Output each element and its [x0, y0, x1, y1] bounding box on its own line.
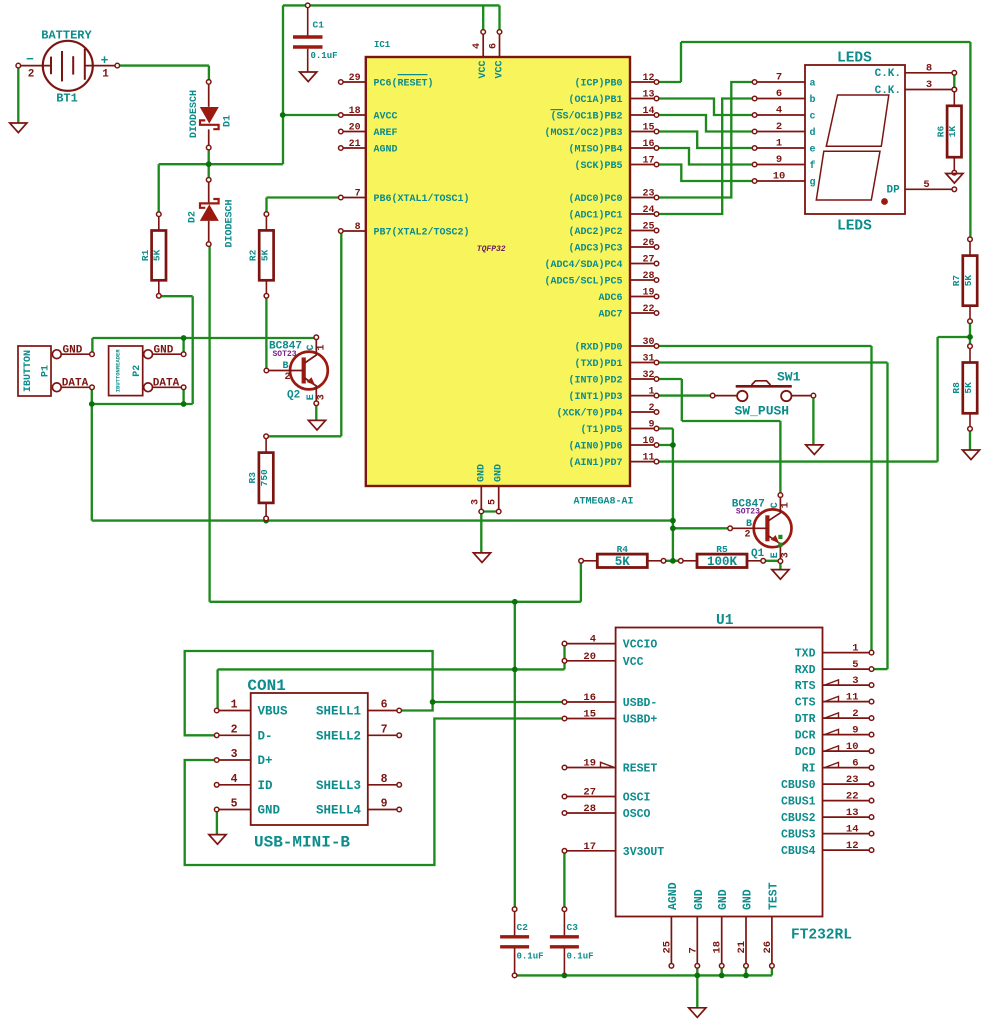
svg-text:14: 14 [846, 824, 859, 836]
svg-text:5K: 5K [259, 249, 270, 261]
svg-text:25: 25 [642, 222, 654, 233]
svg-text:1: 1 [776, 138, 782, 150]
svg-text:RI: RI [802, 763, 816, 776]
svg-text:D-: D- [258, 730, 273, 744]
svg-text:(ADC1)PC1: (ADC1)PC1 [568, 210, 622, 222]
svg-text:(SS/OC1B)PB2: (SS/OC1B)PB2 [550, 111, 622, 123]
svg-text:7: 7 [381, 723, 388, 736]
svg-text:8: 8 [926, 62, 932, 74]
svg-text:VBUS: VBUS [258, 705, 289, 719]
svg-text:CBUS2: CBUS2 [781, 812, 816, 825]
svg-text:f: f [810, 160, 816, 172]
svg-text:(INT0)PD2: (INT0)PD2 [568, 375, 622, 387]
svg-text:4: 4 [776, 105, 782, 117]
svg-text:DIODESCH: DIODESCH [189, 90, 200, 138]
svg-text:3: 3 [926, 79, 932, 91]
svg-text:IC1: IC1 [374, 40, 391, 50]
svg-text:(XCK/T0)PD4: (XCK/T0)PD4 [556, 408, 622, 420]
svg-text:RXD: RXD [795, 664, 816, 677]
svg-text:20: 20 [583, 651, 596, 663]
svg-text:(ADC4/SDA)PC4: (ADC4/SDA)PC4 [544, 259, 622, 271]
svg-text:(ADC2)PC2: (ADC2)PC2 [568, 226, 622, 238]
svg-text:2: 2 [745, 530, 751, 541]
svg-text:GND: GND [693, 889, 706, 910]
svg-text:22: 22 [642, 304, 654, 315]
svg-text:TEST: TEST [767, 882, 780, 910]
svg-text:d: d [810, 127, 816, 139]
svg-text:Q1: Q1 [751, 548, 765, 560]
svg-text:a: a [810, 79, 816, 90]
svg-text:5: 5 [852, 659, 858, 671]
svg-text:(ADC0)PC0: (ADC0)PC0 [568, 193, 622, 205]
svg-text:ATMEGA8-AI: ATMEGA8-AI [574, 497, 634, 508]
svg-text:9: 9 [776, 154, 782, 166]
svg-text:OSCO: OSCO [623, 808, 651, 821]
svg-text:D2: D2 [188, 211, 199, 223]
svg-text:27: 27 [583, 787, 596, 799]
svg-text:C2: C2 [517, 922, 529, 933]
svg-text:0.1uF: 0.1uF [311, 51, 338, 61]
svg-text:3: 3 [470, 499, 481, 505]
svg-text:30: 30 [642, 337, 654, 348]
svg-text:3: 3 [852, 675, 858, 687]
svg-text:(SCK)PB5: (SCK)PB5 [574, 160, 622, 172]
svg-text:SW1: SW1 [777, 370, 801, 385]
svg-text:13: 13 [846, 807, 859, 819]
svg-text:0.1uF: 0.1uF [517, 952, 544, 962]
svg-text:20: 20 [349, 123, 361, 134]
svg-text:28: 28 [583, 803, 596, 815]
svg-text:5K: 5K [615, 555, 631, 569]
svg-text:R6: R6 [935, 126, 946, 138]
svg-text:VCC: VCC [495, 60, 506, 78]
svg-text:DCR: DCR [795, 730, 816, 743]
svg-text:R3: R3 [247, 472, 258, 484]
svg-text:CBUS0: CBUS0 [781, 779, 816, 792]
svg-text:4: 4 [590, 634, 596, 646]
svg-text:ADC6: ADC6 [598, 293, 622, 304]
svg-text:17: 17 [642, 156, 654, 167]
svg-text:ADC7: ADC7 [598, 310, 622, 321]
svg-text:9: 9 [648, 420, 654, 431]
svg-text:(TXD)PD1: (TXD)PD1 [574, 358, 622, 370]
svg-text:100K: 100K [707, 555, 738, 569]
svg-text:CBUS4: CBUS4 [781, 845, 816, 858]
svg-text:C1: C1 [313, 20, 325, 31]
svg-text:9: 9 [852, 725, 858, 737]
svg-text:TXD: TXD [795, 648, 816, 661]
svg-text:8: 8 [381, 773, 388, 786]
svg-text:PB7(XTAL2/TOSC2): PB7(XTAL2/TOSC2) [374, 227, 470, 239]
svg-text:5K: 5K [963, 275, 974, 287]
svg-text:AGND: AGND [374, 145, 398, 156]
svg-text:9: 9 [381, 798, 388, 811]
svg-text:(T1)PD5: (T1)PD5 [580, 424, 622, 436]
svg-text:18: 18 [349, 106, 361, 117]
svg-text:14: 14 [642, 106, 654, 117]
svg-text:2: 2 [28, 69, 35, 81]
svg-text:(MOSI/OC2)PB3: (MOSI/OC2)PB3 [544, 127, 622, 139]
svg-text:7: 7 [687, 947, 699, 953]
svg-text:B: B [746, 519, 752, 530]
svg-text:SHELL1: SHELL1 [316, 705, 361, 719]
svg-text:VCCIO: VCCIO [623, 639, 658, 652]
svg-text:BT1: BT1 [56, 92, 78, 106]
svg-text:(INT1)PD3: (INT1)PD3 [568, 391, 622, 403]
svg-text:−: − [26, 52, 34, 67]
svg-text:4: 4 [472, 43, 483, 49]
svg-text:DTR: DTR [795, 713, 816, 726]
svg-text:32: 32 [642, 370, 654, 381]
svg-text:BATTERY: BATTERY [41, 29, 92, 43]
svg-text:5K: 5K [152, 249, 163, 261]
svg-text:19: 19 [583, 758, 596, 770]
svg-text:DCD: DCD [795, 746, 816, 759]
svg-text:DIODESCH: DIODESCH [225, 199, 236, 247]
svg-text:b: b [810, 94, 816, 106]
svg-text:CBUS1: CBUS1 [781, 796, 816, 809]
svg-text:2: 2 [776, 121, 782, 133]
svg-text:GND: GND [258, 804, 281, 818]
svg-text:7: 7 [355, 189, 361, 200]
svg-text:5K: 5K [963, 382, 974, 394]
svg-text:C3: C3 [567, 922, 579, 933]
svg-text:15: 15 [642, 123, 654, 134]
svg-text:1: 1 [852, 643, 858, 655]
svg-text:6: 6 [776, 88, 782, 100]
svg-text:1: 1 [648, 387, 654, 398]
svg-text:26: 26 [642, 238, 654, 249]
svg-text:AVCC: AVCC [374, 112, 398, 123]
svg-text:(ADC5/SCL)PC5: (ADC5/SCL)PC5 [544, 276, 622, 288]
svg-text:SOT23: SOT23 [273, 350, 297, 359]
svg-text:27: 27 [642, 255, 654, 266]
svg-text:7: 7 [776, 72, 782, 84]
svg-text:U1: U1 [716, 613, 734, 629]
svg-text:IBUTTON: IBUTTON [23, 350, 34, 392]
svg-text:29: 29 [349, 73, 361, 84]
svg-text:(OC1A)PB1: (OC1A)PB1 [568, 94, 622, 106]
svg-text:GND: GND [742, 889, 755, 910]
svg-text:R1: R1 [140, 249, 151, 261]
svg-text:USB-MINI-B: USB-MINI-B [254, 834, 350, 852]
svg-text:D1: D1 [223, 115, 234, 127]
svg-text:1: 1 [316, 344, 327, 350]
svg-text:SHELL4: SHELL4 [316, 804, 362, 818]
svg-text:5: 5 [488, 499, 499, 505]
svg-text:11: 11 [642, 453, 654, 464]
svg-text:SHELL2: SHELL2 [316, 730, 361, 744]
svg-text:10: 10 [846, 741, 859, 753]
svg-text:GND: GND [494, 464, 505, 482]
svg-text:DATA: DATA [62, 378, 89, 390]
svg-text:GND: GND [717, 889, 730, 910]
svg-text:3: 3 [316, 394, 327, 400]
svg-text:g: g [810, 178, 816, 189]
svg-text:21: 21 [349, 139, 361, 150]
svg-text:C.K.: C.K. [875, 68, 901, 80]
svg-text:GND: GND [476, 464, 487, 482]
svg-text:CBUS3: CBUS3 [781, 829, 816, 842]
svg-text:31: 31 [642, 354, 654, 365]
svg-text:21: 21 [736, 941, 748, 954]
svg-text:PB6(XTAL1/TOSC1): PB6(XTAL1/TOSC1) [374, 193, 470, 205]
svg-text:(ADC3)PC3: (ADC3)PC3 [568, 243, 622, 255]
svg-text:+: + [101, 53, 109, 68]
svg-text:19: 19 [642, 288, 654, 299]
svg-text:10: 10 [642, 436, 654, 447]
svg-text:5: 5 [923, 179, 929, 191]
svg-text:SHELL3: SHELL3 [316, 779, 361, 793]
svg-text:OSCI: OSCI [623, 792, 651, 805]
svg-text:23: 23 [642, 189, 654, 200]
svg-text:(MISO)PB4: (MISO)PB4 [568, 144, 622, 156]
svg-text:SW_PUSH: SW_PUSH [735, 404, 790, 419]
svg-text:0.1uF: 0.1uF [567, 952, 594, 962]
svg-text:P2: P2 [132, 365, 143, 377]
svg-text:LEDS: LEDS [837, 219, 872, 235]
svg-text:(AIN0)PD6: (AIN0)PD6 [568, 441, 622, 453]
svg-text:FT232RL: FT232RL [791, 928, 852, 944]
svg-text:GND: GND [154, 345, 174, 357]
svg-text:DATA: DATA [153, 378, 180, 390]
svg-text:28: 28 [642, 271, 654, 282]
svg-text:15: 15 [583, 709, 596, 721]
svg-text:AREF: AREF [374, 128, 398, 139]
svg-text:13: 13 [642, 90, 654, 101]
svg-text:LEDS: LEDS [837, 51, 872, 67]
svg-text:(ICP)PB0: (ICP)PB0 [574, 78, 622, 90]
svg-text:10: 10 [773, 171, 786, 183]
svg-text:2: 2 [648, 403, 654, 414]
svg-text:1K: 1K [947, 126, 958, 138]
svg-text:e: e [810, 145, 816, 156]
svg-text:R4: R4 [617, 544, 629, 555]
svg-text:P1: P1 [41, 365, 52, 377]
svg-text:1: 1 [780, 502, 791, 508]
svg-text:750: 750 [259, 469, 270, 486]
svg-text:VCC: VCC [478, 60, 489, 78]
svg-text:6: 6 [489, 43, 500, 49]
svg-text:USBD-: USBD- [623, 697, 658, 710]
svg-text:CON1: CON1 [247, 677, 285, 695]
svg-text:12: 12 [846, 840, 859, 852]
svg-text:2: 2 [852, 708, 858, 720]
svg-text:11: 11 [846, 692, 859, 704]
svg-text:RESET: RESET [623, 763, 658, 776]
svg-text:R8: R8 [951, 382, 962, 394]
svg-text:SOT23: SOT23 [736, 507, 760, 516]
svg-text:24: 24 [642, 205, 654, 216]
svg-text:6: 6 [381, 699, 388, 712]
svg-text:3V3OUT: 3V3OUT [623, 846, 665, 859]
svg-text:17: 17 [583, 841, 596, 853]
svg-text:IBUTTONREADER: IBUTTONREADER [115, 349, 122, 393]
svg-text:DP: DP [887, 185, 901, 197]
svg-text:16: 16 [583, 692, 596, 704]
svg-text:c: c [810, 112, 816, 123]
svg-text:2: 2 [231, 723, 238, 736]
svg-text:RTS: RTS [795, 680, 816, 693]
svg-text:22: 22 [846, 791, 859, 803]
svg-text:(RXD)PD0: (RXD)PD0 [574, 342, 622, 354]
svg-text:26: 26 [762, 941, 774, 954]
svg-text:TQFP32: TQFP32 [477, 245, 506, 254]
svg-text:GND: GND [63, 345, 83, 357]
svg-text:(AIN1)PD7: (AIN1)PD7 [568, 457, 622, 469]
svg-text:5: 5 [231, 798, 238, 811]
svg-text:USBD+: USBD+ [623, 714, 658, 727]
svg-text:CTS: CTS [795, 697, 816, 710]
svg-text:6: 6 [852, 758, 858, 770]
svg-text:VCC: VCC [623, 656, 644, 669]
svg-text:2: 2 [285, 372, 291, 383]
svg-text:3: 3 [231, 748, 238, 761]
svg-text:AGND: AGND [667, 882, 680, 910]
svg-text:Q2: Q2 [287, 390, 300, 402]
svg-text:R5: R5 [716, 544, 728, 555]
svg-text:R7: R7 [951, 275, 962, 287]
svg-text:1: 1 [102, 69, 109, 81]
svg-text:16: 16 [642, 139, 654, 150]
svg-text:1: 1 [231, 699, 238, 712]
svg-text:ID: ID [258, 779, 274, 793]
svg-text:18: 18 [712, 941, 724, 954]
svg-text:D+: D+ [258, 754, 273, 768]
svg-text:23: 23 [846, 774, 859, 786]
svg-text:R2: R2 [248, 249, 259, 261]
svg-text:B: B [283, 361, 289, 372]
svg-text:12: 12 [642, 73, 654, 84]
svg-text:PC6(RESET): PC6(RESET) [374, 78, 434, 90]
svg-text:8: 8 [355, 222, 361, 233]
svg-text:4: 4 [231, 773, 238, 786]
svg-text:25: 25 [661, 941, 673, 954]
svg-text:3: 3 [780, 552, 791, 558]
